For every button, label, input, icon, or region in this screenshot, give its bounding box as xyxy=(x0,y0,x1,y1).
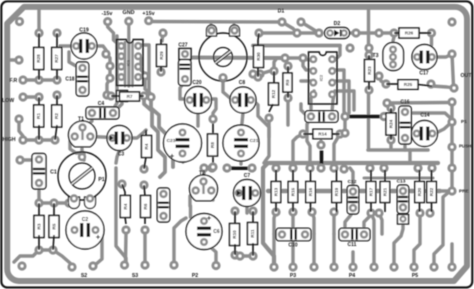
node pad xyxy=(364,85,373,94)
svg-text:C17: C17 xyxy=(419,71,428,77)
node pad xyxy=(235,251,244,260)
node pad xyxy=(447,97,456,106)
node pad xyxy=(429,262,438,271)
wire xyxy=(452,54,454,88)
capacitor C13 xyxy=(397,185,409,214)
svg-text:R23: R23 xyxy=(367,66,372,75)
node pad xyxy=(288,163,297,172)
wire input F.R xyxy=(23,78,57,81)
resistor R16 xyxy=(306,182,316,203)
node D1 pad A xyxy=(277,17,286,26)
wire xyxy=(343,118,346,133)
wire xyxy=(208,99,216,119)
lead xyxy=(252,211,254,224)
wire xyxy=(450,147,453,168)
transistor T3 xyxy=(383,43,404,71)
wire xyxy=(204,168,212,181)
wire xyxy=(10,58,19,61)
lead xyxy=(418,85,432,87)
lead xyxy=(160,39,162,45)
capacitor C23 xyxy=(164,124,202,162)
svg-text:D1: D1 xyxy=(278,9,285,15)
node pad xyxy=(105,61,114,70)
capacitor C27 xyxy=(179,60,192,86)
node pad xyxy=(264,113,273,122)
node pad xyxy=(374,208,383,217)
wire xyxy=(291,212,294,234)
lead xyxy=(275,170,277,181)
svg-text:R30: R30 xyxy=(256,52,261,61)
wire xyxy=(94,46,106,54)
node pad xyxy=(207,163,216,172)
wire xyxy=(364,213,371,234)
resistor R10 xyxy=(230,224,240,246)
capacitor C21 xyxy=(223,125,259,161)
lead xyxy=(144,217,146,224)
capacitor C1 xyxy=(32,154,46,190)
capacitor C16 xyxy=(399,106,412,144)
node pad xyxy=(140,71,149,80)
lead xyxy=(144,157,146,169)
resistor R28 xyxy=(34,48,44,70)
wire resistor bus xyxy=(268,189,440,193)
node pad xyxy=(255,69,264,78)
node pad xyxy=(427,28,436,37)
lead xyxy=(275,203,277,212)
wire xyxy=(212,191,213,200)
node pad xyxy=(369,262,378,271)
resistor R14 xyxy=(313,129,332,139)
svg-text:C16: C16 xyxy=(400,100,409,106)
lead xyxy=(431,203,433,212)
svg-text:C4: C4 xyxy=(98,101,105,107)
svg-text:C13: C13 xyxy=(397,179,406,185)
lead xyxy=(336,170,338,181)
capacitor C20 xyxy=(185,87,212,114)
wire xyxy=(435,125,449,134)
capacitor C18 xyxy=(76,62,89,96)
node pad xyxy=(121,225,130,234)
wire xyxy=(116,150,120,163)
node pad xyxy=(208,114,217,123)
node pad xyxy=(230,206,239,215)
svg-text:HIGH: HIGH xyxy=(3,137,16,143)
node pad xyxy=(283,93,292,102)
resistor R6 xyxy=(141,196,151,218)
node pad xyxy=(366,208,375,217)
svg-text:R2: R2 xyxy=(54,113,59,119)
node pad xyxy=(271,207,280,216)
svg-text:R26: R26 xyxy=(405,31,414,36)
lead xyxy=(390,134,392,140)
node pad xyxy=(386,135,395,144)
lead xyxy=(332,133,340,135)
node pad xyxy=(447,163,456,172)
wire xyxy=(70,137,84,154)
wire xyxy=(14,250,39,262)
node pad xyxy=(15,155,24,164)
svg-text:T3: T3 xyxy=(372,53,378,59)
svg-text:C10: C10 xyxy=(288,243,297,249)
svg-text:C19: C19 xyxy=(79,28,89,34)
svg-text:P1: P1 xyxy=(461,119,467,125)
wire -15v feed xyxy=(108,22,118,44)
lead xyxy=(145,130,147,136)
lead xyxy=(273,71,275,84)
lead xyxy=(310,170,312,181)
svg-text:P3: P3 xyxy=(290,273,296,279)
wire xyxy=(335,70,348,117)
resistor R30 xyxy=(254,46,264,68)
node pad xyxy=(102,90,111,99)
node pad xyxy=(17,261,26,270)
node pad xyxy=(309,262,318,271)
lead xyxy=(269,104,273,112)
node P3 pad xyxy=(288,262,297,271)
wire xyxy=(181,152,184,162)
node pad xyxy=(314,28,323,37)
wire xyxy=(126,130,146,138)
svg-text:IC2: IC2 xyxy=(319,74,324,81)
lead xyxy=(53,235,54,250)
wire xyxy=(260,71,274,74)
node pad xyxy=(14,55,23,64)
node F.R pad xyxy=(18,75,27,84)
lead xyxy=(38,33,40,48)
node P4 pad xyxy=(348,262,357,271)
lead xyxy=(212,157,214,166)
wire xyxy=(450,102,453,122)
svg-text:R16: R16 xyxy=(308,187,313,196)
wire xyxy=(285,56,303,59)
lead xyxy=(38,97,40,107)
resistor R13 xyxy=(271,182,281,203)
wire D-bus left xyxy=(259,31,319,34)
wire xyxy=(434,191,452,267)
wire xyxy=(232,25,235,32)
node pad xyxy=(106,91,115,100)
lead xyxy=(390,108,392,114)
C7 polarity arrow xyxy=(237,190,241,196)
wire xyxy=(440,189,452,192)
svg-text:P2: P2 xyxy=(192,273,198,279)
wire xyxy=(190,191,195,206)
lead xyxy=(38,69,40,80)
wire xyxy=(332,91,335,112)
wire bus xyxy=(253,44,340,48)
wire xyxy=(430,33,433,45)
node pad xyxy=(447,49,456,58)
wire xyxy=(253,72,260,75)
svg-text:R17: R17 xyxy=(369,187,374,196)
resistor R3 xyxy=(34,216,44,238)
lead xyxy=(53,203,55,218)
svg-text:C12: C12 xyxy=(348,179,357,185)
lead xyxy=(303,133,313,135)
node pad xyxy=(67,262,76,271)
wire xyxy=(274,212,276,234)
resistor R5 xyxy=(49,216,59,238)
node pad xyxy=(305,163,314,172)
lead xyxy=(258,33,259,46)
resistor R22 xyxy=(427,182,437,203)
lead xyxy=(336,203,338,212)
node S3 pad xyxy=(120,260,129,269)
node -15v pad xyxy=(103,17,112,26)
wire xyxy=(394,221,403,267)
wire xyxy=(319,141,322,145)
node square pad xyxy=(117,91,128,102)
wire xyxy=(435,54,452,57)
lead xyxy=(287,92,289,98)
svg-text:C2: C2 xyxy=(82,217,89,223)
wire xyxy=(239,152,242,164)
wire xyxy=(307,118,311,168)
wire xyxy=(334,134,340,168)
resistor R25 xyxy=(398,80,418,90)
wire xyxy=(106,54,110,66)
capacitor C8 xyxy=(230,87,256,113)
node pad xyxy=(415,208,424,217)
node pad xyxy=(140,225,149,234)
svg-text:P5: P5 xyxy=(412,273,418,279)
wire xyxy=(264,118,269,163)
capacitor C11 xyxy=(339,228,370,241)
wire xyxy=(450,168,453,191)
wire xyxy=(82,153,85,160)
wire xyxy=(39,248,53,251)
svg-text:C14: C14 xyxy=(420,113,429,119)
wire xyxy=(209,25,212,32)
svg-text:R9: R9 xyxy=(285,79,290,85)
node pad xyxy=(280,53,289,62)
capacitor C14 xyxy=(412,121,438,147)
wire xyxy=(131,42,134,86)
wire xyxy=(303,58,314,70)
lead xyxy=(234,244,236,255)
svg-text:OUT: OUT xyxy=(461,73,473,79)
node pad xyxy=(335,129,344,138)
wire xyxy=(83,113,92,128)
svg-text:R11: R11 xyxy=(250,229,255,238)
node pad xyxy=(105,73,114,82)
wire xyxy=(235,255,240,256)
node pad xyxy=(253,72,262,81)
svg-text:R29: R29 xyxy=(159,51,164,60)
wire xyxy=(282,22,297,33)
wire xyxy=(350,168,353,187)
node pad xyxy=(52,28,61,37)
wire xyxy=(242,113,244,128)
wire xyxy=(80,146,83,154)
lead xyxy=(370,170,372,181)
node pad xyxy=(379,112,388,121)
node pad xyxy=(340,112,349,121)
capacitor C7 xyxy=(234,180,261,207)
resistor R7 xyxy=(120,92,140,101)
node pad xyxy=(427,163,436,172)
lead xyxy=(368,81,370,90)
wire xyxy=(174,218,186,265)
node pad xyxy=(34,198,43,207)
lead xyxy=(38,235,40,250)
node pad xyxy=(169,260,178,269)
resistor R1 xyxy=(34,105,44,127)
lead xyxy=(310,203,312,212)
capacitor C19 xyxy=(71,33,97,59)
node pad xyxy=(14,114,23,123)
wire main bus xyxy=(263,163,438,267)
svg-text:T1: T1 xyxy=(78,117,84,123)
wire xyxy=(227,166,234,169)
svg-text:R25: R25 xyxy=(404,82,413,87)
svg-text:R14: R14 xyxy=(318,132,327,137)
node pad xyxy=(389,262,398,271)
svg-text:R5: R5 xyxy=(52,223,57,229)
node pad xyxy=(139,180,148,189)
node pad xyxy=(50,135,59,144)
node pad xyxy=(298,53,307,62)
wire xyxy=(204,243,216,266)
node pad xyxy=(101,49,110,58)
node P5 pad xyxy=(409,262,418,271)
node pad xyxy=(316,140,325,149)
node +15v pad xyxy=(144,16,153,25)
node LOW pad xyxy=(18,92,27,101)
wire xyxy=(332,234,335,267)
lead xyxy=(370,203,372,212)
trimmer potentiometer P1 xyxy=(58,152,106,209)
wire xyxy=(180,82,188,99)
wire xyxy=(401,214,404,219)
lead xyxy=(419,203,421,212)
wire xyxy=(301,79,314,82)
wire xyxy=(274,58,285,71)
wire link W2 (horizontal, right of IC2) xyxy=(348,115,383,119)
node pad xyxy=(139,91,148,100)
node pad xyxy=(345,43,354,52)
node pad xyxy=(34,135,43,144)
lead xyxy=(419,170,421,181)
node pad xyxy=(218,73,227,82)
capacitor C12 xyxy=(347,186,359,215)
svg-text:C1: C1 xyxy=(50,170,57,176)
svg-text:R24: R24 xyxy=(389,119,394,128)
wire meander xyxy=(151,97,173,167)
node pad xyxy=(146,92,155,101)
resistor R26 xyxy=(399,28,419,38)
lead xyxy=(144,185,145,196)
wire xyxy=(405,113,452,122)
node pad xyxy=(117,179,126,188)
node pad xyxy=(199,163,208,172)
wire xyxy=(367,48,370,55)
svg-text:P4: P4 xyxy=(349,273,355,279)
svg-text:C11: C11 xyxy=(348,242,357,248)
node pad xyxy=(351,28,360,37)
wire xyxy=(414,215,420,267)
wire xyxy=(389,140,392,148)
wire xyxy=(117,96,122,109)
node pad xyxy=(447,186,456,195)
wire -15v rail to pad xyxy=(37,9,40,33)
svg-text:T2: T2 xyxy=(199,171,205,177)
node pad xyxy=(52,75,61,84)
wire xyxy=(301,22,319,33)
capacitor C10 xyxy=(276,228,311,241)
svg-text:LOW: LOW xyxy=(2,98,14,104)
wire xyxy=(223,78,233,100)
wire xyxy=(335,81,349,113)
lead xyxy=(368,55,370,60)
diode D2 xyxy=(325,28,350,39)
wire xyxy=(335,47,340,60)
resistor R15 xyxy=(288,182,298,203)
resistor R29 xyxy=(157,45,167,67)
svg-text:R27: R27 xyxy=(54,54,59,63)
wire xyxy=(371,213,374,267)
wire xyxy=(408,150,411,163)
trimmer potentiometer P2 xyxy=(199,25,247,82)
op-amp IC1 xyxy=(117,40,144,86)
capacitor C9 xyxy=(305,111,338,123)
wire xyxy=(189,206,192,217)
capacitor C5 xyxy=(157,188,170,222)
wire xyxy=(60,44,74,47)
node D1 pad B xyxy=(296,17,305,26)
node pad xyxy=(374,28,383,37)
lead xyxy=(234,211,236,225)
node pad xyxy=(364,50,373,59)
node pad xyxy=(374,71,383,80)
resistor R17 xyxy=(366,182,376,203)
wire xyxy=(138,45,151,97)
capacitor C17 xyxy=(412,45,437,70)
wire xyxy=(301,104,311,116)
capacitor C2 xyxy=(66,211,104,249)
node pad xyxy=(379,163,388,172)
node pad xyxy=(283,61,292,70)
node pad xyxy=(64,198,73,207)
wire xyxy=(332,212,335,234)
node pad xyxy=(230,250,239,259)
node pad xyxy=(248,206,257,215)
transistor T1 xyxy=(69,121,97,147)
svg-text:-15v: -15v xyxy=(102,11,113,17)
wire xyxy=(450,122,453,147)
wire xyxy=(108,66,111,78)
svg-text:P1: P1 xyxy=(98,177,104,183)
node GND pad xyxy=(124,17,133,26)
wire xyxy=(403,140,406,150)
wire D-bus mid xyxy=(346,31,394,34)
node pad xyxy=(158,28,167,37)
node pad xyxy=(447,117,456,126)
wire xyxy=(345,212,353,234)
svg-text:IC1: IC1 xyxy=(126,59,131,66)
node square pad (C27 top) xyxy=(179,49,191,60)
svg-text:C3: C3 xyxy=(118,152,125,158)
node pad xyxy=(48,245,57,254)
node pad xyxy=(339,164,348,173)
wire xyxy=(393,33,394,49)
capacitor C4 xyxy=(86,107,119,119)
wire xyxy=(115,36,118,113)
node pad xyxy=(156,67,165,76)
wire xyxy=(144,96,151,97)
resistor R24 xyxy=(386,113,396,135)
wire xyxy=(293,134,303,168)
